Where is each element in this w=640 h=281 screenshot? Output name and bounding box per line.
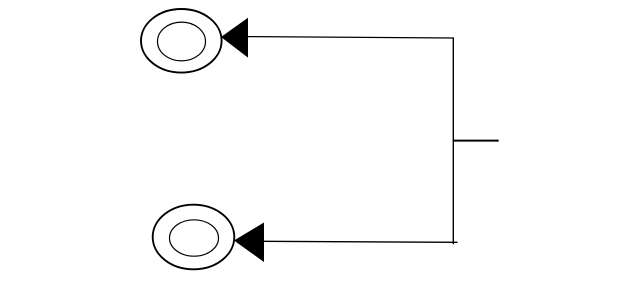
terminal T2 (double-ellipse node, bottom) (153, 205, 235, 270)
wire top horizontal (247, 37, 453, 38)
stub input wire (453, 140, 499, 142)
wire vertical bus (452, 37, 454, 244)
wire bottom horizontal (263, 241, 458, 242)
arrowhead into T2 (234, 223, 264, 263)
terminal T1 (double-ellipse node, top) (141, 9, 222, 73)
arrowhead into T1 (221, 18, 248, 58)
